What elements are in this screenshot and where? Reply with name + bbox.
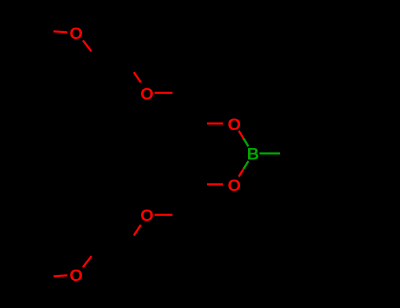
svg-text:O: O: [140, 84, 153, 103]
wire bond O5-CH2e red half: [134, 225, 141, 236]
wire bond CH2f-O5 red half: [155, 214, 173, 216]
phenyl ring bond Cipso-C2: [296, 123, 314, 153]
wire ring bond O4-C5 black half: [195, 183, 208, 185]
wire bond O6-CH3 black half: [31, 276, 54, 280]
wire bond CH2d-O6 black half: [92, 245, 102, 256]
svg-text:O: O: [228, 115, 241, 134]
wire ring bond O3-B green half: [244, 139, 249, 147]
phenyl ring bond C5p-C6: [314, 183, 349, 185]
wire bond CH3-O1 black half: [31, 28, 54, 32]
wire bond C5-CH2f: [193, 184, 195, 215]
svg-text:O: O: [69, 24, 82, 43]
phenyl ring bond C3-C4p: [349, 123, 367, 153]
wire ring bond C4-C5: [193, 124, 195, 185]
wire bond CH2c-C4: [193, 93, 195, 124]
wire ring bond C4-O3 red half: [207, 122, 223, 124]
wire bond B-Cipso black half: [280, 152, 296, 154]
wire bond CH2d-O6 red half: [83, 256, 92, 267]
wire ring bond B-O4 red half: [239, 169, 244, 177]
wire bond O2-CH2c red half: [155, 92, 173, 94]
phenyl inner double bond C3-C4p: [349, 129, 362, 151]
wire ring bond B-O4 green half: [244, 161, 249, 169]
wire bond O5-CH2e black half: [125, 236, 134, 248]
wire bond CH2f-O5 black half: [173, 214, 195, 216]
wire ring bond C4-O3 black half: [195, 122, 208, 124]
wire bond CH2a-CH2b: [101, 60, 124, 63]
phenyl ring bond C6-Cipso: [296, 153, 314, 184]
phenyl inner double bond Cipso-C2: [302, 128, 317, 153]
svg-text:B: B: [247, 145, 259, 164]
wire ring bond O4-C5 red half: [207, 183, 223, 185]
wire bond O1-CH2a black half: [92, 52, 102, 63]
wire bond O1-CH2a red half: [83, 40, 92, 51]
wire bond CH2b-O2 red half: [134, 72, 141, 82]
phenyl inner double bond C5p-C6: [317, 178, 346, 180]
wire ring bond O3-B red half: [239, 131, 244, 139]
phenyl ring bond C4p-C5p: [349, 154, 367, 184]
svg-text:O: O: [140, 206, 153, 225]
wire bond CH2e-CH2d: [101, 245, 125, 247]
wire bond O6-CH3 red half: [54, 275, 68, 276]
svg-text:O: O: [228, 176, 241, 195]
phenyl ring bond C2-C3: [314, 122, 349, 124]
wire bond CH3-O1 red half: [54, 31, 68, 32]
wire bond O2-CH2c black half: [173, 92, 195, 94]
wire bond B-Cipso green half: [260, 152, 281, 154]
wire bond CH2b-O2 black half: [124, 60, 134, 72]
svg-text:O: O: [69, 266, 82, 285]
